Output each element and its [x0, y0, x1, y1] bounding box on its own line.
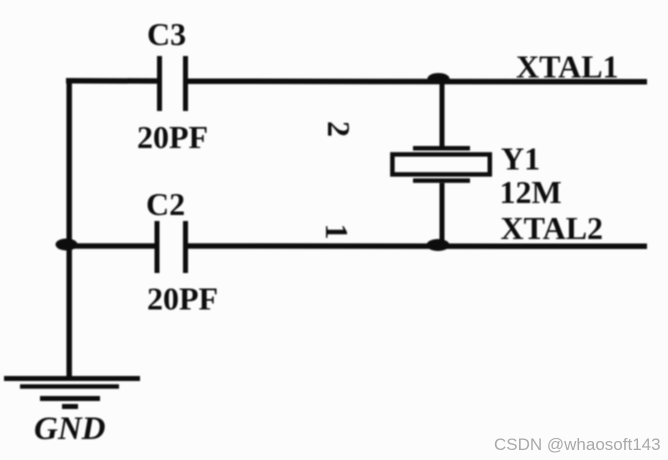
svg-text:1: 1 [319, 224, 355, 240]
svg-text:Y1: Y1 [501, 141, 540, 177]
svg-text:GND: GND [34, 411, 106, 447]
svg-text:XTAL2: XTAL2 [501, 210, 604, 246]
svg-text:CSDN @whaosoft143: CSDN @whaosoft143 [494, 435, 661, 454]
svg-text:20PF: 20PF [137, 119, 208, 155]
svg-text:20PF: 20PF [147, 281, 218, 317]
svg-text:12M: 12M [500, 174, 562, 210]
svg-text:C2: C2 [146, 186, 185, 222]
svg-text:C3: C3 [147, 16, 186, 52]
svg-text:XTAL1: XTAL1 [516, 49, 619, 85]
svg-text:2: 2 [321, 121, 357, 137]
